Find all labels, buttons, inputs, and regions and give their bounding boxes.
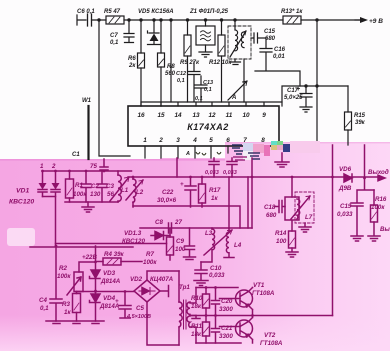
svg-text:С9: С9 [176, 238, 184, 245]
svg-text:0,1: 0,1 [195, 96, 203, 102]
svg-text:R10: R10 [191, 295, 203, 302]
zener VD4 [90, 292, 101, 322]
svg-text:VD5 КС156А: VD5 КС156А [138, 9, 174, 15]
wire L4 top drop [229, 177, 248, 228]
svg-text:14: 14 [174, 112, 182, 119]
capacitor C10 [194, 262, 208, 286]
svg-text:C3: C3 [106, 183, 114, 190]
transistor VT1 [236, 288, 253, 316]
svg-text:0,033: 0,033 [205, 170, 219, 176]
wire +22V rail [30, 244, 167, 248]
resistor R17 [199, 177, 206, 207]
arrowhead +9V [360, 17, 368, 23]
capacitor C20 [212, 288, 220, 316]
resistor R10 [203, 288, 210, 316]
svg-text:100к: 100к [371, 204, 385, 211]
svg-text:2: 2 [158, 137, 163, 144]
wire tank top [43, 170, 132, 172]
svg-text:VT1: VT1 [253, 282, 265, 289]
svg-text:C18: C18 [264, 204, 276, 211]
svg-text:+: + [180, 181, 184, 188]
resistor R14 [286, 221, 298, 257]
svg-text:13: 13 [192, 112, 200, 119]
ground tank [82, 202, 94, 212]
svg-text:ГТ108А: ГТ108А [260, 340, 283, 347]
svg-text:6: 6 [226, 137, 230, 144]
wire VT1 base [220, 298, 241, 300]
svg-text:18к: 18к [191, 331, 202, 338]
varicap VD1.2 [51, 171, 60, 197]
svg-text:4: 4 [192, 137, 197, 144]
ground Tp1 tap [192, 316, 200, 319]
wire R2 top [79, 246, 96, 272]
svg-text:R6: R6 [128, 56, 136, 62]
svg-text:C4: C4 [39, 297, 47, 304]
svg-text:C19: C19 [340, 203, 352, 210]
svg-text:VD6: VD6 [339, 166, 352, 173]
svg-text:10: 10 [242, 112, 250, 119]
svg-text:2к: 2к [128, 63, 136, 69]
svg-text:0,1: 0,1 [110, 40, 119, 46]
svg-text:КВС120: КВС120 [9, 199, 34, 206]
svg-text:VT2: VT2 [264, 332, 276, 339]
transistor VT2 [236, 316, 253, 344]
transformer Tp1 [179, 271, 196, 345]
capacitor C21 [212, 316, 220, 344]
svg-text:27: 27 [174, 219, 182, 226]
svg-text:3: 3 [176, 137, 180, 144]
svg-text:R8: R8 [167, 64, 175, 70]
svg-text:5: 5 [209, 137, 213, 144]
zener VD5 [148, 20, 161, 45]
svg-text:12: 12 [208, 112, 216, 119]
svg-text:Выход: Выход [368, 169, 389, 176]
wire +9V arrow [355, 19, 362, 21]
svg-text:7: 7 [243, 137, 247, 144]
svg-text:0,033: 0,033 [223, 170, 237, 176]
svg-text:R14: R14 [275, 230, 287, 237]
svg-text:0,01: 0,01 [273, 54, 285, 60]
resistor R11 [203, 316, 210, 344]
svg-text:C8: C8 [155, 219, 163, 226]
svg-text:R13* 1к: R13* 1к [281, 9, 303, 15]
wire pin14 drop [170, 20, 172, 102]
svg-text:0,033: 0,033 [337, 211, 353, 218]
svg-text:КЦ407А: КЦ407А [150, 276, 174, 283]
capacitor C17 [300, 86, 312, 112]
svg-text:R16: R16 [375, 196, 387, 203]
inductor L1 [110, 171, 129, 202]
wire bridge top [147, 271, 179, 280]
svg-text:130: 130 [90, 191, 101, 198]
inductor L4 [204, 228, 234, 258]
svg-text:R1: R1 [75, 182, 83, 189]
svg-text:39к: 39к [355, 120, 366, 126]
resistor R16 [368, 190, 380, 241]
svg-text:W1: W1 [82, 98, 92, 104]
svg-text:R2: R2 [59, 265, 67, 272]
inductor L3 [201, 228, 215, 262]
capacitor C16 [255, 49, 300, 87]
svg-text:5,0×25: 5,0×25 [284, 95, 303, 101]
svg-text:16: 16 [137, 112, 145, 119]
svg-text:0,1: 0,1 [204, 87, 212, 93]
resistor R3 [73, 292, 81, 322]
resistor R4 [96, 258, 143, 265]
resistor R5 [106, 16, 124, 24]
svg-text:R3: R3 [62, 301, 70, 308]
wire bridge right plug [160, 286, 169, 297]
ground rail bottom left [46, 321, 104, 324]
tank box L7 [285, 192, 314, 223]
svg-text:100к: 100к [57, 273, 71, 280]
arrowhead out [378, 175, 385, 181]
svg-text:C7: C7 [110, 33, 118, 39]
wire pin3 drop pink [176, 158, 178, 177]
capacitor 75 [100, 159, 108, 171]
wire mid bottom rail [133, 206, 240, 228]
capacitor C18 [275, 201, 285, 213]
resistor R9 [184, 20, 191, 102]
wire tank bottom [65, 201, 118, 203]
svg-text:100к: 100к [73, 191, 87, 198]
svg-text:1к: 1к [211, 195, 218, 202]
svg-text:100к: 100к [143, 259, 157, 266]
light patch left [7, 228, 35, 246]
svg-text:C6 0,1: C6 0,1 [77, 9, 95, 15]
resistor R7 [167, 237, 174, 260]
svg-text:+22В: +22В [82, 254, 97, 261]
resistor R12 [218, 20, 225, 102]
svg-text:+: + [296, 86, 300, 93]
wire bridge bottom loop [147, 302, 179, 345]
svg-text:1: 1 [143, 137, 147, 144]
svg-text:L3: L3 [205, 230, 213, 237]
svg-text:С5: С5 [136, 305, 144, 312]
svg-text:0,1: 0,1 [177, 78, 185, 84]
svg-text:VD1: VD1 [16, 188, 29, 195]
svg-text:1к: 1к [64, 309, 71, 316]
svg-text:C12: C12 [176, 71, 186, 77]
svg-text:А: А [185, 151, 190, 157]
IC pin numbers bottom [143, 137, 265, 144]
capacitor C9 [184, 228, 196, 260]
svg-text:560: 560 [165, 71, 176, 77]
svg-text:R9 27к: R9 27к [180, 60, 200, 66]
svg-text:11: 11 [226, 112, 233, 119]
svg-text:C13: C13 [203, 80, 213, 86]
capacitor 0,033 b [227, 158, 237, 177]
wire long feedback [332, 145, 334, 316]
wire long drop pin8 [251, 158, 253, 228]
diode VD5 triangle [150, 34, 159, 42]
diode VD1.3 triangle [156, 231, 164, 239]
svg-text:1: 1 [40, 163, 44, 170]
varicap VD1.1 [38, 171, 47, 197]
zener VD3 [90, 262, 101, 292]
svg-text:R11: R11 [191, 323, 202, 330]
varicap VD1 triangles [39, 183, 47, 190]
svg-text:+: + [115, 298, 119, 305]
svg-text:К174ХА2: К174ХА2 [187, 122, 229, 132]
svg-text:15: 15 [157, 112, 165, 119]
wire main output rail [128, 176, 381, 178]
wire VD13 row [140, 228, 252, 237]
wire C17 R15 rail [282, 86, 348, 106]
capacitor C7 [124, 20, 134, 43]
svg-text:L7: L7 [305, 214, 313, 221]
svg-text:С20: С20 [221, 298, 233, 305]
resistor R8 [158, 20, 165, 106]
svg-text:4,5×100В: 4,5×100В [126, 314, 151, 320]
svg-text:2: 2 [51, 163, 56, 170]
svg-text:L4: L4 [234, 242, 242, 249]
svg-text:А: А [231, 95, 236, 101]
svg-text:R5 47: R5 47 [104, 9, 121, 15]
arrow A tuning [228, 81, 247, 100]
svg-text:Тр1: Тр1 [179, 284, 190, 291]
svg-text:75: 75 [90, 163, 97, 170]
capacitor C6 [88, 14, 92, 26]
svg-text:Z1 Ф01П-0,25: Z1 Ф01П-0,25 [189, 9, 229, 15]
diode VD6 [344, 174, 352, 182]
svg-text:100: 100 [175, 246, 186, 253]
svg-text:18к: 18к [191, 303, 202, 310]
svg-text:VD1.3: VD1.3 [124, 230, 142, 237]
resistor R6 [138, 20, 145, 106]
capacitor C12 [188, 62, 200, 102]
inductor L2 [126, 177, 143, 207]
wire out drop [364, 145, 366, 178]
svg-text:R12 10к: R12 10к [209, 60, 232, 66]
resistor R15 [345, 86, 352, 145]
IC U1 K174XA2 [128, 106, 279, 146]
wires VT1 bias rails [190, 288, 333, 344]
svg-text:R15: R15 [354, 113, 366, 119]
wire VT2 base [220, 326, 241, 328]
ground L7 [299, 223, 311, 232]
diode VD1.3 [151, 232, 170, 240]
svg-text:3300: 3300 [219, 306, 233, 313]
svg-text:680: 680 [265, 36, 276, 42]
glitch band [232, 141, 320, 160]
IC bottom pin stubs [145, 146, 263, 158]
svg-text:R17: R17 [209, 187, 221, 194]
svg-text:VD2: VD2 [130, 276, 143, 283]
junction dots top [98, 19, 318, 87]
svg-text:R4 39к: R4 39к [104, 251, 125, 258]
svg-text:Вы: Вы [380, 226, 390, 233]
svg-text:C22: C22 [162, 189, 174, 196]
svg-text:Д9В: Д9В [338, 185, 352, 192]
capacitor C2 [81, 171, 91, 202]
wire L7 drop [291, 177, 293, 197]
capacitor C5 [119, 292, 131, 319]
IC pin numbers top [137, 112, 266, 119]
antenna W1 [87, 106, 89, 159]
capacitor C4 [50, 247, 62, 321]
svg-text:L2: L2 [136, 189, 144, 196]
svg-text:С1: С1 [72, 152, 80, 158]
svg-text:30,0×6: 30,0×6 [157, 197, 177, 204]
resistor R1 [66, 171, 74, 202]
capacitor C15 [251, 33, 266, 48]
capacitor C8 [169, 223, 172, 233]
wire top bus [77, 15, 362, 25]
svg-text:С10: С10 [210, 265, 222, 272]
svg-text:L1: L1 [121, 187, 129, 194]
svg-text:0,033: 0,033 [209, 272, 225, 279]
bridge VD2 [134, 280, 160, 302]
junction dots tank [41, 170, 366, 317]
svg-text:Д814А: Д814А [100, 278, 121, 285]
capacitor C3 [97, 171, 107, 202]
potentiometer R2 [67, 272, 83, 295]
ground mid [275, 153, 289, 167]
svg-text:С21: С21 [221, 325, 233, 332]
svg-text:0,1: 0,1 [40, 305, 49, 312]
capacitor C13 [195, 76, 207, 102]
svg-text:+9 В: +9 В [369, 18, 383, 25]
PINK SECTION [30, 145, 385, 345]
svg-text:КВС120: КВС120 [122, 238, 145, 245]
svg-text:9: 9 [262, 112, 266, 119]
capacitor C22 [185, 177, 196, 207]
svg-text:C15: C15 [264, 29, 276, 35]
capacitor 0,033 a [209, 158, 219, 177]
svg-text:680: 680 [266, 212, 277, 219]
wire VD1 join [43, 197, 56, 247]
svg-text:R7: R7 [146, 251, 154, 258]
svg-text:C2: C2 [91, 183, 99, 190]
resistor R13 [283, 16, 301, 24]
node bus to C1 wire [99, 20, 130, 156]
svg-text:VD3: VD3 [103, 270, 116, 277]
svg-text:C16: C16 [274, 47, 286, 53]
svg-text:VD4: VD4 [103, 295, 116, 302]
op IC top pin stubs [141, 102, 282, 106]
transformer L5 L6 [228, 20, 251, 102]
filter Z1 [196, 20, 215, 57]
svg-text:8: 8 [261, 137, 265, 144]
svg-text:100: 100 [276, 238, 287, 245]
wire bridge left [76, 291, 134, 293]
svg-text:56: 56 [107, 191, 114, 198]
svg-text:3300: 3300 [219, 333, 233, 340]
svg-text:ГТ108А: ГТ108А [252, 290, 275, 297]
wire +9V drop [316, 20, 318, 145]
network C19 R16 [351, 178, 374, 241]
scribbles below IC [196, 152, 221, 155]
